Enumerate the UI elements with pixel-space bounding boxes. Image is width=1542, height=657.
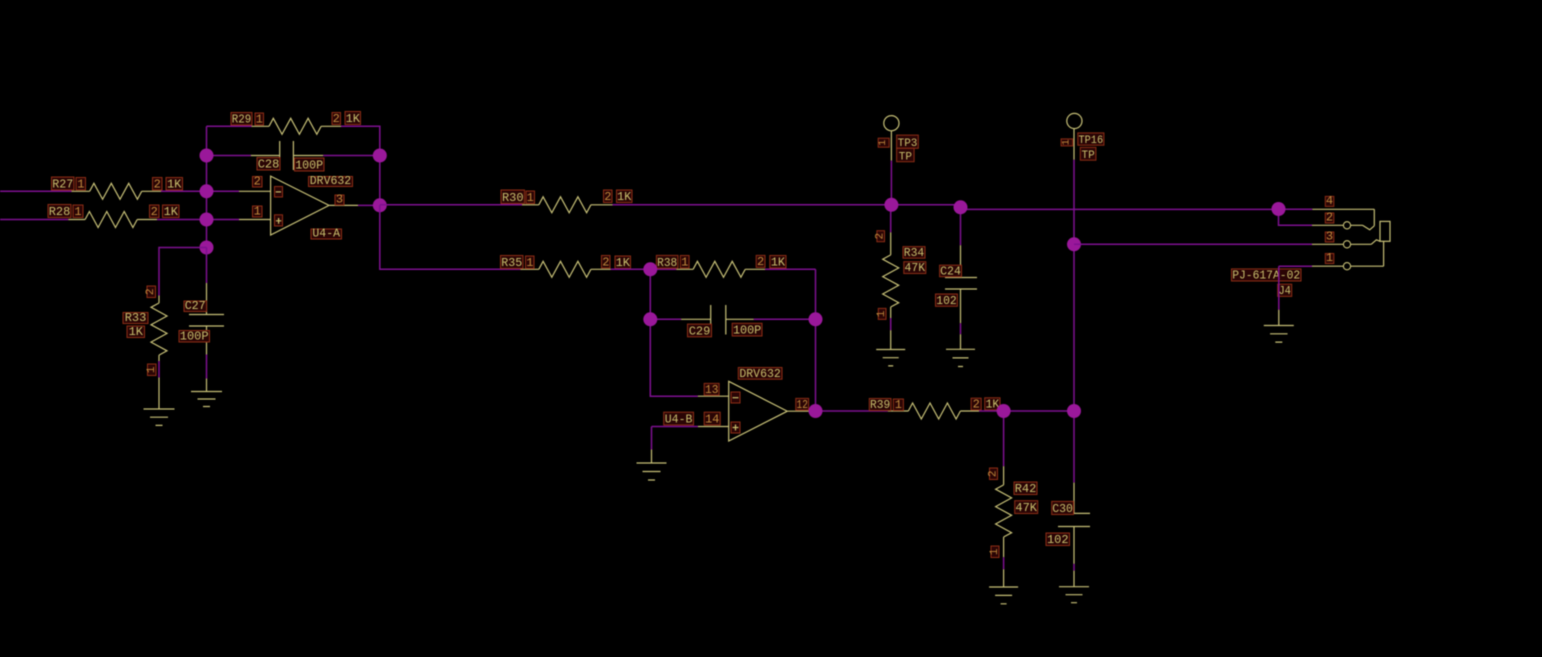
svg-text:DRV632: DRV632 bbox=[310, 175, 352, 188]
label C27 bbox=[184, 301, 207, 312]
resistor R39 bbox=[888, 403, 979, 419]
svg-text:R42: R42 bbox=[1015, 482, 1037, 496]
wire C28 pin2 to right rail bbox=[323, 155, 380, 157]
junction rail/R33 branch bbox=[200, 241, 214, 255]
svg-text:100P: 100P bbox=[295, 159, 323, 173]
pin number 2 bbox=[756, 255, 765, 267]
pin number 1 bbox=[76, 178, 86, 191]
pin number 14 bbox=[704, 412, 720, 425]
wire node to C28 pin1 bbox=[207, 155, 251, 157]
svg-text:1: 1 bbox=[256, 113, 263, 127]
ground R34 bbox=[876, 330, 905, 366]
svg-text:R38: R38 bbox=[657, 256, 677, 270]
pin number 2 bbox=[150, 205, 160, 218]
wire U4-A out to R30 bbox=[380, 204, 522, 206]
wire node to R38 pin1 bbox=[650, 268, 676, 270]
svg-text:1: 1 bbox=[1326, 251, 1333, 265]
pin number 3 bbox=[1325, 232, 1334, 242]
svg-text:1: 1 bbox=[254, 205, 261, 219]
pin number 2 bbox=[153, 178, 163, 191]
capacitor C28 bbox=[251, 141, 323, 170]
label R29 bbox=[231, 113, 252, 126]
ground U4-B pin14 bbox=[637, 450, 667, 481]
op-amp U4-A bbox=[239, 176, 358, 235]
svg-text:R35: R35 bbox=[501, 256, 522, 270]
label U4-A bbox=[311, 229, 342, 239]
label 47K bbox=[1015, 501, 1038, 514]
svg-text:1: 1 bbox=[681, 256, 688, 270]
TP3 circle bbox=[884, 116, 899, 131]
wire C29 pin2 to rail bbox=[754, 318, 816, 320]
junction C24/net bbox=[954, 200, 968, 214]
jack pin3 ring contact bbox=[1312, 240, 1380, 245]
svg-text:R34: R34 bbox=[904, 246, 925, 260]
svg-text:1: 1 bbox=[74, 205, 81, 219]
svg-text:3: 3 bbox=[1326, 230, 1333, 244]
wire TP16 rail to R39 node bbox=[1073, 244, 1075, 411]
svg-text:R30: R30 bbox=[502, 191, 524, 205]
label 1K bbox=[985, 398, 1000, 410]
label DRV632 bbox=[309, 177, 353, 187]
U4-B inverting input marker bbox=[731, 392, 740, 403]
svg-text:R27: R27 bbox=[52, 178, 73, 192]
label J4 bbox=[1278, 284, 1292, 296]
pin number 2 bbox=[971, 398, 981, 410]
U4-A non-inverting input marker bbox=[275, 215, 283, 226]
label 1K bbox=[615, 256, 631, 269]
pin number 2 bbox=[332, 113, 341, 125]
pin number 2 bbox=[604, 190, 613, 203]
test point TP3 bbox=[890, 131, 892, 161]
junction R35/R38 bbox=[643, 262, 657, 276]
label C24 bbox=[940, 265, 962, 277]
label R27 bbox=[52, 177, 75, 190]
wire R27 pin2 to node bbox=[161, 190, 207, 192]
wire left feedback rail to U4-B pin13 bbox=[650, 269, 698, 396]
pin number 1 bbox=[1325, 254, 1334, 264]
pin number 1 bbox=[893, 399, 903, 411]
svg-text:R33: R33 bbox=[125, 311, 147, 325]
svg-text:1: 1 bbox=[989, 548, 1001, 555]
label C29 bbox=[688, 324, 712, 337]
wire down to J4 pin2 bbox=[1279, 209, 1313, 225]
svg-text:2: 2 bbox=[254, 175, 261, 189]
wire node down to R33 bbox=[159, 248, 207, 296]
U4-A inverting input marker bbox=[275, 187, 283, 198]
svg-text:1: 1 bbox=[527, 191, 534, 205]
svg-text:R29: R29 bbox=[232, 113, 252, 127]
pin number 2 (rotated) bbox=[147, 286, 156, 298]
wire input net to R27 pin1 bbox=[0, 190, 72, 192]
jack pin1 contact circle bbox=[1343, 263, 1350, 270]
jack pin2 line bbox=[1312, 224, 1363, 226]
wire rail top to R29 pin1 bbox=[207, 125, 252, 127]
wire R42 pin1 to ground bbox=[1003, 557, 1005, 569]
wire node down to R42 pin2 bbox=[1003, 411, 1005, 466]
svg-text:2: 2 bbox=[1326, 211, 1333, 225]
pin number 2 bbox=[1325, 213, 1334, 223]
svg-text:2: 2 bbox=[154, 178, 161, 192]
label TP16 bbox=[1078, 133, 1104, 145]
pin number 1 (rotated) bbox=[1061, 139, 1073, 146]
junction right rail/C28 bbox=[373, 149, 387, 163]
ground R42 bbox=[989, 569, 1018, 604]
wire U4-A out down to R35 bbox=[380, 205, 521, 269]
svg-text:R28: R28 bbox=[49, 205, 71, 219]
U4-B non-inverting input marker bbox=[731, 422, 740, 433]
pin number 1 bbox=[255, 113, 264, 125]
op-amp U4-B bbox=[698, 381, 811, 441]
svg-text:1K: 1K bbox=[167, 178, 182, 192]
svg-text:2: 2 bbox=[604, 190, 611, 204]
junction TP16/J4 pin3 net bbox=[1067, 237, 1081, 251]
junction net/J4 pins 4-2 bbox=[1272, 202, 1286, 216]
jack pin3 contact circle bbox=[1343, 241, 1350, 248]
wire ground branch to J4 pin1 bbox=[1279, 265, 1312, 267]
label R35 bbox=[501, 256, 524, 269]
wire R28 pin2 to node bbox=[157, 219, 206, 221]
svg-text:4: 4 bbox=[1326, 194, 1333, 208]
TP16 circle bbox=[1067, 113, 1082, 128]
wire U4-A pin3 output to node bbox=[358, 204, 380, 206]
svg-text:C27: C27 bbox=[185, 299, 206, 313]
label R34 bbox=[903, 247, 925, 259]
resistor R29 bbox=[252, 118, 342, 134]
junction rail/R28 bbox=[200, 213, 214, 227]
svg-text:47K: 47K bbox=[1015, 501, 1037, 515]
pin number 2 (rotated) bbox=[877, 231, 885, 242]
label 102 bbox=[936, 294, 958, 306]
resistor R30 bbox=[522, 197, 613, 213]
svg-text:2: 2 bbox=[875, 233, 887, 240]
wire node to C29 pin1 bbox=[650, 318, 681, 320]
wire C30 pin2 to ground bbox=[1073, 564, 1075, 571]
label R30 bbox=[501, 190, 525, 204]
capacitor C29 bbox=[681, 305, 754, 335]
pin number 1 (rotated) bbox=[878, 138, 889, 147]
svg-text:1: 1 bbox=[526, 256, 533, 270]
svg-text:47K: 47K bbox=[905, 261, 926, 275]
label U4-B bbox=[664, 412, 694, 425]
wire R33 pin1 to ground bbox=[158, 361, 160, 378]
wire node down to C27 bbox=[206, 248, 208, 284]
wire C24 node to J4 (lower jog) bbox=[961, 208, 1279, 210]
svg-text:102: 102 bbox=[936, 294, 956, 308]
svg-text:2: 2 bbox=[151, 205, 158, 219]
pin number 1 bbox=[253, 206, 263, 217]
svg-text:2: 2 bbox=[602, 256, 609, 270]
svg-text:DRV632: DRV632 bbox=[739, 368, 781, 381]
wire net to R34 pin2 bbox=[890, 205, 892, 233]
svg-text:1: 1 bbox=[876, 310, 888, 317]
junction rail/R27 bbox=[200, 184, 214, 198]
resistor R28 bbox=[68, 212, 157, 228]
jack pin1 sleeve line bbox=[1312, 241, 1384, 266]
pin number 1 bbox=[526, 191, 535, 204]
svg-text:1: 1 bbox=[1061, 139, 1072, 145]
wire net to J4 pin4 bbox=[1279, 208, 1313, 210]
junction R39/R42 bbox=[997, 404, 1011, 418]
wire TP16 node to J4 pin3 bbox=[1074, 243, 1312, 245]
junction U4-B output bbox=[809, 404, 823, 418]
label 102 bbox=[1046, 533, 1070, 546]
junction C29 right bbox=[809, 312, 823, 326]
test point TP16 bbox=[1073, 129, 1075, 160]
svg-text:1K: 1K bbox=[129, 325, 144, 339]
wire TP3 pin1 to net bbox=[890, 161, 892, 205]
wire node to U4-A pin2 bbox=[207, 190, 240, 192]
svg-text:1K: 1K bbox=[616, 256, 631, 270]
label 100P bbox=[295, 158, 325, 171]
svg-text:12: 12 bbox=[797, 398, 808, 412]
capacitor C30 bbox=[1058, 483, 1090, 564]
label 1K bbox=[617, 190, 633, 203]
wire TP16 down (crosses net) bbox=[1073, 160, 1075, 245]
svg-text:102: 102 bbox=[1047, 533, 1069, 547]
svg-text:C28: C28 bbox=[258, 158, 280, 172]
wire R29 pin2 down right rail bbox=[341, 126, 380, 205]
pin number 1 bbox=[680, 256, 689, 269]
pin number 13 bbox=[704, 383, 719, 395]
svg-text:2: 2 bbox=[145, 288, 157, 295]
svg-text:R39: R39 bbox=[870, 398, 890, 412]
ground R33 bbox=[144, 378, 175, 426]
svg-text:2: 2 bbox=[757, 255, 764, 269]
jack body rectangle bbox=[1380, 221, 1390, 241]
label 100P bbox=[179, 331, 210, 343]
label TP3 bbox=[897, 135, 919, 148]
pin number 1 bbox=[526, 256, 535, 269]
label R28 bbox=[48, 205, 71, 218]
svg-text:1: 1 bbox=[146, 366, 158, 373]
svg-text:13: 13 bbox=[705, 383, 718, 397]
label 47K bbox=[904, 262, 926, 274]
label R39 bbox=[869, 399, 891, 411]
junction U4-A output bbox=[373, 198, 387, 212]
wire node down to C30 bbox=[1073, 411, 1075, 483]
wire R35 pin2 to node bbox=[611, 268, 651, 270]
svg-text:PJ-617A-02: PJ-617A-02 bbox=[1232, 270, 1300, 283]
wire U4-B pin14 to ground branch bbox=[652, 426, 698, 428]
svg-text:TP16: TP16 bbox=[1079, 135, 1104, 147]
pin number 2 bbox=[602, 256, 611, 269]
svg-text:J4: J4 bbox=[1278, 285, 1291, 298]
svg-text:1K: 1K bbox=[346, 112, 361, 126]
svg-text:C29: C29 bbox=[689, 325, 711, 339]
pin number 2 (rotated) bbox=[990, 468, 998, 480]
pin number 12 bbox=[796, 398, 809, 410]
jack pin2 contact circle bbox=[1343, 222, 1350, 229]
svg-text:TP: TP bbox=[1081, 150, 1095, 162]
wire R39 pin2 to node bbox=[979, 410, 1074, 412]
label C28 bbox=[257, 158, 280, 171]
svg-text:2: 2 bbox=[988, 470, 1000, 477]
label R33 bbox=[123, 313, 148, 324]
label C30 bbox=[1052, 501, 1074, 514]
label 1K bbox=[770, 256, 786, 269]
junction C29 left bbox=[643, 312, 657, 326]
svg-text:1: 1 bbox=[895, 398, 902, 412]
label 100P bbox=[732, 323, 762, 336]
svg-text:100P: 100P bbox=[733, 324, 761, 338]
svg-text:1K: 1K bbox=[771, 256, 786, 270]
wire R38 pin2 down right feedback rail bbox=[765, 269, 816, 411]
pin number 1 (rotated) bbox=[991, 546, 999, 558]
label PJ-617A-02 bbox=[1232, 269, 1302, 281]
junction TP3/net bbox=[884, 198, 898, 212]
svg-text:1K: 1K bbox=[617, 190, 632, 204]
label 1K bbox=[127, 326, 145, 338]
label 1K bbox=[163, 205, 180, 218]
pin number 1 bbox=[73, 205, 83, 218]
ground C27 bbox=[191, 379, 222, 407]
label TP bbox=[1080, 147, 1096, 160]
svg-text:1: 1 bbox=[878, 140, 889, 146]
ground C30 bbox=[1059, 571, 1089, 603]
junction rail/C28 bbox=[200, 149, 214, 163]
svg-text:TP: TP bbox=[899, 151, 913, 163]
wire input net to R28 pin1 bbox=[0, 219, 68, 221]
resistor R33 bbox=[151, 296, 167, 362]
wire node to U4-A pin1 bbox=[207, 219, 240, 221]
ground J4 bbox=[1264, 310, 1294, 342]
label R42 bbox=[1014, 482, 1037, 495]
pin number 4 bbox=[1325, 196, 1334, 206]
label 1K bbox=[345, 112, 361, 125]
label R38 bbox=[656, 255, 678, 268]
wire net to C24 pin1 bbox=[960, 209, 962, 245]
wire C24 pin2 to ground bbox=[960, 323, 962, 334]
label TP bbox=[897, 148, 915, 161]
resistor R35 bbox=[520, 261, 610, 277]
wire U4-B pin12 out to R39 bbox=[811, 410, 888, 412]
label 1K bbox=[166, 178, 183, 191]
pin number 3 bbox=[335, 195, 344, 205]
svg-text:2: 2 bbox=[973, 398, 980, 412]
ground C24 bbox=[946, 334, 975, 366]
label DRV632 bbox=[738, 368, 782, 380]
pin number 1 (rotated) bbox=[878, 308, 886, 319]
pin number 1 (rotated) bbox=[148, 364, 157, 376]
junction R39 net/TP16 rail bbox=[1067, 404, 1081, 418]
wire R30 pin2 to C24 node bbox=[613, 204, 961, 206]
svg-text:U4-B: U4-B bbox=[665, 414, 693, 427]
resistor R27 bbox=[72, 183, 162, 199]
svg-text:100P: 100P bbox=[180, 330, 209, 344]
wire C27 pin2 to ground bbox=[206, 355, 208, 379]
svg-text:C24: C24 bbox=[940, 265, 961, 278]
wire left vertical rail bbox=[206, 126, 208, 247]
jack pin4 tip contact bbox=[1312, 209, 1374, 230]
svg-text:2: 2 bbox=[333, 112, 340, 126]
wire down to ground bbox=[651, 427, 653, 450]
wire J4 pin1 to ground bbox=[1278, 266, 1280, 310]
svg-text:1K: 1K bbox=[164, 205, 179, 219]
capacitor C27 bbox=[189, 283, 224, 355]
svg-text:3: 3 bbox=[336, 193, 343, 207]
svg-text:U4-A: U4-A bbox=[312, 228, 340, 241]
svg-text:1: 1 bbox=[77, 178, 84, 192]
svg-text:14: 14 bbox=[705, 413, 719, 427]
pin number 2 bbox=[253, 177, 263, 188]
wire R34 pin1 to ground bbox=[890, 318, 892, 330]
svg-text:C30: C30 bbox=[1052, 503, 1073, 516]
